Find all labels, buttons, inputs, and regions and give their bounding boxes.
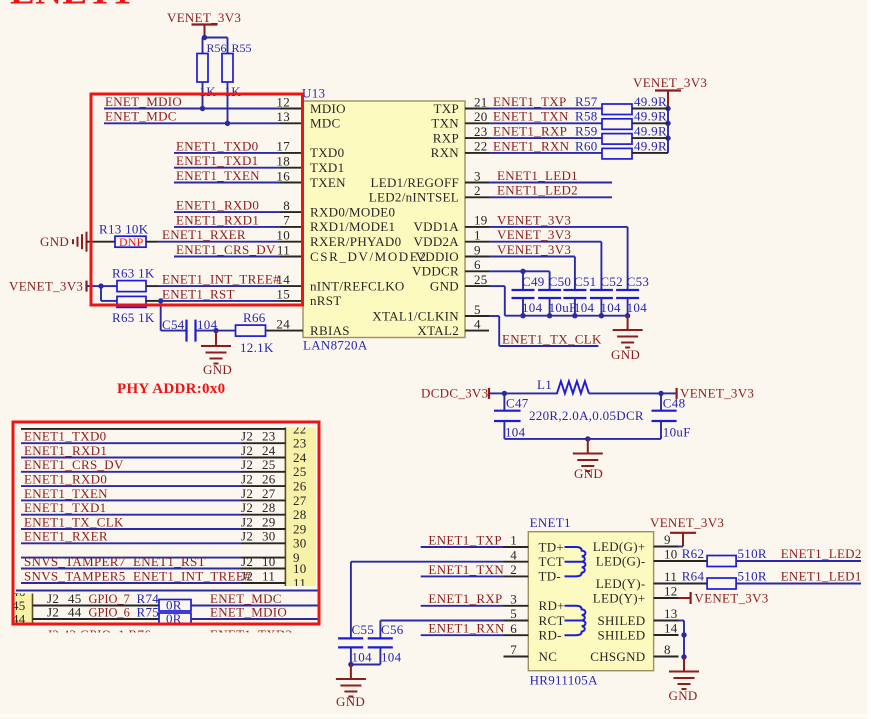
svg-text:C54: C54 xyxy=(162,317,185,332)
svg-text:20: 20 xyxy=(474,109,488,124)
svg-text:VENET_3V3: VENET_3V3 xyxy=(497,227,571,242)
svg-text:R64: R64 xyxy=(682,569,705,584)
svg-text:J2: J2 xyxy=(241,554,253,569)
wire J2 row 46 (cropped) xyxy=(16,590,318,592)
svg-text:12.1K: 12.1K xyxy=(240,340,274,355)
svg-text:LED(G)-: LED(G)- xyxy=(596,553,646,568)
ground (left, rotated) xyxy=(40,232,87,252)
svg-text:49.9R: 49.9R xyxy=(634,109,667,124)
wire VDDCR pin6 to C49/C50 xyxy=(489,269,550,290)
svg-text:C47: C47 xyxy=(506,396,529,411)
wire+net ENET1_TXD0 xyxy=(174,138,280,153)
wire bottom rail of filter xyxy=(504,436,661,441)
rail for R57-R60 xyxy=(665,106,670,153)
svg-text:ENET1_TXP: ENET1_TXP xyxy=(493,94,566,109)
svg-text:28: 28 xyxy=(293,507,307,522)
svg-text:11: 11 xyxy=(664,569,677,584)
svg-text:17: 17 xyxy=(276,139,290,154)
svg-text:1: 1 xyxy=(510,533,517,548)
svg-text:25: 25 xyxy=(474,272,488,287)
svg-text:ENET1_TXD1: ENET1_TXD1 xyxy=(24,500,106,515)
wire+net ENET1_TXN (HR pin2) xyxy=(421,562,505,577)
wire nRST branch down to RBIAS row xyxy=(161,301,186,331)
svg-text:8: 8 xyxy=(664,642,671,657)
svg-text:VENET_3V3: VENET_3V3 xyxy=(497,242,571,257)
svg-text:15: 15 xyxy=(276,287,290,302)
svg-text:ENET1_TXN: ENET1_TXN xyxy=(428,562,504,577)
svg-text:ENET1_CRS_DV: ENET1_CRS_DV xyxy=(24,457,124,472)
svg-text:RD-: RD- xyxy=(539,628,562,643)
node: VENET to R56/R55 split xyxy=(202,35,228,54)
svg-text:1: 1 xyxy=(474,228,481,243)
svg-text:ENET1_LED2: ENET1_LED2 xyxy=(497,183,578,198)
svg-text:10: 10 xyxy=(664,547,678,562)
svg-text:3: 3 xyxy=(510,591,517,606)
power VENET_3V3 (top right) xyxy=(633,75,707,109)
svg-text:J2: J2 xyxy=(241,529,253,544)
svg-text:ENET1_TXD1: ENET1_TXD1 xyxy=(176,153,258,168)
wire GND pin25 to cap rail xyxy=(489,286,628,316)
svg-text:2: 2 xyxy=(474,183,481,198)
svg-text:LED(Y)-: LED(Y)- xyxy=(596,576,646,591)
wire+net ENET1_TX_CLK to J2 29 xyxy=(21,514,285,529)
wire+net ENET1_TXN / resistor R58 49.9R xyxy=(489,109,668,130)
svg-text:19: 19 xyxy=(474,213,488,228)
wire+net ENET1_RXD1 to J2 24 xyxy=(21,443,285,458)
svg-text:ENET1_INT_TREE#: ENET1_INT_TREE# xyxy=(133,568,251,583)
wire+net ENET1_RXER xyxy=(158,227,280,242)
svg-text:RXP: RXP xyxy=(433,130,459,145)
svg-text:ENET1_LED2: ENET1_LED2 xyxy=(781,546,862,561)
svg-text:49.9R: 49.9R xyxy=(634,124,667,139)
svg-text:ENET1: ENET1 xyxy=(530,515,571,530)
ground (filter) xyxy=(573,439,603,481)
svg-text:GND: GND xyxy=(574,466,603,481)
svg-text:GND: GND xyxy=(203,362,232,377)
svg-text:12: 12 xyxy=(276,94,290,109)
svg-text:24: 24 xyxy=(262,443,276,458)
wire+net VENET_3V3 pin9 to C51 xyxy=(489,242,575,290)
svg-text:ENET1_RXP: ENET1_RXP xyxy=(493,124,567,139)
connector J2 body strip (right) xyxy=(285,428,316,587)
svg-text:RXD0/MODE0: RXD0/MODE0 xyxy=(310,204,395,219)
svg-text:10uF: 10uF xyxy=(663,425,691,440)
svg-text:R63 1K: R63 1K xyxy=(112,266,155,281)
svg-text:MDIO: MDIO xyxy=(310,101,346,116)
svg-text:ENET_MDC: ENET_MDC xyxy=(105,109,177,124)
svg-text:RXER/PHYAD0: RXER/PHYAD0 xyxy=(310,234,401,249)
power VENET_3V3 (top) xyxy=(167,10,241,38)
svg-text:VENET_3V3: VENET_3V3 xyxy=(680,385,754,400)
svg-text:VENET_3V3: VENET_3V3 xyxy=(694,590,768,605)
svg-text:PHY ADDR:0x0: PHY ADDR:0x0 xyxy=(117,381,225,397)
HR911105A internal names left xyxy=(539,539,565,664)
svg-text:12: 12 xyxy=(664,584,678,599)
svg-text:C56: C56 xyxy=(381,622,404,637)
capacitor C52 104 xyxy=(590,274,623,318)
svg-text:7: 7 xyxy=(510,642,517,657)
svg-text:ENET1_RXD0: ENET1_RXD0 xyxy=(176,198,259,213)
svg-text:ENET1_TXN: ENET1_TXN xyxy=(493,109,569,124)
svg-text:ENET1_RST: ENET1_RST xyxy=(162,286,235,301)
svg-text:RBIAS: RBIAS xyxy=(310,323,350,338)
wire+net ENET1_RXD1 xyxy=(174,212,280,227)
U13 pin names (left column) xyxy=(310,101,405,338)
svg-text:TXN: TXN xyxy=(431,116,459,131)
svg-text:16: 16 xyxy=(276,168,290,183)
svg-text:J2: J2 xyxy=(241,472,253,487)
svg-text:DNP: DNP xyxy=(119,235,144,249)
capacitor C55 104 xyxy=(338,622,374,665)
svg-text:44: 44 xyxy=(68,604,82,619)
resistor R56 xyxy=(197,41,227,109)
svg-text:J2: J2 xyxy=(241,514,253,529)
wire+net ENET1_TX_CLK xyxy=(489,316,602,346)
svg-text:ENET1_TXEN: ENET1_TXEN xyxy=(176,168,260,183)
svg-text:ENET1_TXP: ENET1_TXP xyxy=(428,532,501,547)
svg-text:30: 30 xyxy=(293,536,307,551)
svg-text:RD+: RD+ xyxy=(539,598,565,613)
svg-text:ENET_MDIO: ENET_MDIO xyxy=(105,94,182,109)
svg-text:LED(G)+: LED(G)+ xyxy=(593,539,646,554)
ground (HR chassis) xyxy=(669,657,700,703)
svg-text:nRST: nRST xyxy=(310,293,342,308)
svg-text:GND: GND xyxy=(611,347,640,362)
svg-text:J2: J2 xyxy=(241,500,253,515)
svg-text:ENET1_TXD0: ENET1_TXD0 xyxy=(24,429,106,444)
resistor R65 xyxy=(112,296,158,325)
svg-text:104: 104 xyxy=(600,300,621,315)
power VENET_3V3 (HR pin9) xyxy=(650,515,724,547)
svg-text:26: 26 xyxy=(262,472,276,487)
capacitor C48 10uF xyxy=(652,393,691,439)
node VENET split to R63/R65 xyxy=(98,283,117,301)
wire+net SNVS_TAMPER5 ENET1_INT_TREE# to J2 11 xyxy=(21,568,285,583)
capacitor C51 104 xyxy=(563,274,596,318)
svg-text:10: 10 xyxy=(293,561,307,576)
svg-text:13: 13 xyxy=(276,109,290,124)
U13 right pin stubs with numbers xyxy=(465,94,489,331)
power VENET_3V3 (right port) xyxy=(677,385,755,400)
wire TCT to C55 xyxy=(351,562,504,639)
capacitor C54 xyxy=(162,317,218,342)
svg-text:LED2/nINTSEL: LED2/nINTSEL xyxy=(369,190,459,205)
svg-text:TXP: TXP xyxy=(434,101,459,116)
wire+net VENET_3V3 pin1 to C52 xyxy=(489,227,601,290)
resistor R66 xyxy=(236,310,274,355)
svg-text:18: 18 xyxy=(276,154,290,169)
svg-text:5: 5 xyxy=(474,302,481,317)
svg-text:TXD0: TXD0 xyxy=(310,145,344,160)
svg-text:ENET1_TX_CLK: ENET1_TX_CLK xyxy=(24,514,124,529)
svg-text:25: 25 xyxy=(262,457,276,472)
op-amp U13 chip body LAN8720A xyxy=(302,86,465,353)
svg-text:U13: U13 xyxy=(302,86,325,101)
power VENET_3V3 (left port) xyxy=(9,279,101,294)
svg-text:VDD2A: VDD2A xyxy=(413,234,459,249)
capacitor C50 10uF xyxy=(538,274,576,318)
HR911105A right pin stubs + numbers xyxy=(654,532,679,657)
svg-text:TD+: TD+ xyxy=(539,539,565,554)
wire+net ENET1_RXN (HR pin6) xyxy=(421,621,505,636)
svg-text:VENET_3V3: VENET_3V3 xyxy=(650,515,724,530)
resistor R75 0R / wire+net ENET_MDIO row J2 44 GPIO_6 xyxy=(33,604,319,625)
svg-text:R75: R75 xyxy=(137,604,160,619)
connector strip pin numbers xyxy=(293,421,307,590)
svg-text:nINT/REFCLKO: nINT/REFCLKO xyxy=(310,278,405,293)
svg-text:C53: C53 xyxy=(627,274,650,289)
node C54/R66/GND junction xyxy=(196,328,236,333)
capacitor C47 104 xyxy=(494,393,529,439)
svg-text:GPIO_7: GPIO_7 xyxy=(89,592,130,606)
svg-text:220R,2.0A,0.05DCR: 220R,2.0A,0.05DCR xyxy=(529,408,644,423)
wire+net ENET1_TXD1 to J2 28 xyxy=(21,500,285,515)
svg-text:4: 4 xyxy=(510,547,517,562)
svg-text:SNVS_TAMPER7: SNVS_TAMPER7 xyxy=(24,554,126,569)
wire shield pins 13/14/8 to ground xyxy=(679,621,687,660)
svg-text:GND: GND xyxy=(430,278,459,293)
wire+net ENET1_TXEN to J2 27 xyxy=(21,486,285,501)
svg-text:9: 9 xyxy=(664,532,671,547)
svg-text:RXN: RXN xyxy=(431,145,460,160)
svg-text:ENET1_LED1: ENET1_LED1 xyxy=(497,168,578,183)
svg-text:MDC: MDC xyxy=(310,116,341,131)
svg-text:24: 24 xyxy=(276,316,290,331)
svg-text:VENET_3V3: VENET_3V3 xyxy=(633,75,707,90)
svg-text:ENET_MDIO: ENET_MDIO xyxy=(210,604,287,619)
svg-text:11: 11 xyxy=(293,575,306,590)
svg-text:J2: J2 xyxy=(241,457,253,472)
svg-text:J2: J2 xyxy=(47,604,59,619)
svg-text:SHILED: SHILED xyxy=(597,627,645,642)
svg-text:ENET1_RXP: ENET1_RXP xyxy=(428,591,502,606)
svg-text:TXD1: TXD1 xyxy=(310,160,344,175)
svg-text:C51: C51 xyxy=(574,274,597,289)
svg-text:XTAL2: XTAL2 xyxy=(417,323,459,338)
capacitor C53 104 xyxy=(616,274,649,318)
svg-text:104: 104 xyxy=(627,300,648,315)
svg-text:LED1/REGOFF: LED1/REGOFF xyxy=(370,175,459,190)
wire J2 row 22 (cropped) xyxy=(21,428,285,430)
svg-text:ENET1_TXD0: ENET1_TXD0 xyxy=(176,138,258,153)
wire+net ENET_MDC xyxy=(104,109,280,126)
wire+net ENET1_CRS_DV to J2 25 xyxy=(21,457,285,472)
svg-text:ENET1_INT_TREE#: ENET1_INT_TREE# xyxy=(162,272,280,287)
wire+net ENET1_RXER to J2 30 xyxy=(21,529,285,544)
title ENET (cropped at top) xyxy=(10,0,132,13)
svg-text:23: 23 xyxy=(262,429,276,444)
wire+net ENET1_RXD0 to J2 26 xyxy=(21,472,285,487)
svg-text:R62: R62 xyxy=(682,546,705,561)
svg-text:VENET_3V3: VENET_3V3 xyxy=(497,212,571,227)
resistor R74 0R / wire+net ENET_MDC row J2 45 GPIO_7 xyxy=(33,591,319,612)
cropped text row below box xyxy=(47,627,292,642)
svg-text:SNVS_TAMPER5: SNVS_TAMPER5 xyxy=(24,568,126,583)
svg-text:30: 30 xyxy=(262,529,276,544)
wire+net ENET1_INT_TREE# xyxy=(158,272,280,287)
capacitor C56 104 xyxy=(351,622,404,665)
resistor R13 (DNP) xyxy=(87,222,159,249)
svg-text:ENET1_RXD0: ENET1_RXD0 xyxy=(24,472,107,487)
svg-text:RCT: RCT xyxy=(539,613,565,628)
svg-text:J2 43 GPIO_1 R76: J2 43 GPIO_1 R76 xyxy=(47,627,151,642)
svg-text:CHSGND: CHSGND xyxy=(590,649,645,664)
svg-text:49.9R: 49.9R xyxy=(634,94,667,109)
svg-text:R58: R58 xyxy=(575,109,598,124)
wire+net ENET1_RXD0 xyxy=(174,198,280,213)
svg-text:29: 29 xyxy=(293,521,307,536)
wire+net ENET1_RXP / resistor R59 49.9R xyxy=(489,124,668,145)
svg-text:14: 14 xyxy=(664,621,678,636)
svg-text:HR911105A: HR911105A xyxy=(530,673,598,688)
svg-text:VDDCR: VDDCR xyxy=(412,264,459,279)
red highlight box (lower) xyxy=(13,422,319,624)
svg-text:VENET_3V3: VENET_3V3 xyxy=(9,279,83,294)
svg-text:ENET1_RST: ENET1_RST xyxy=(133,554,206,569)
svg-text:26: 26 xyxy=(293,479,307,494)
svg-text:VENET_3V3: VENET_3V3 xyxy=(167,10,241,25)
wire L1 to VENET_3V3 xyxy=(589,391,677,396)
svg-text:7: 7 xyxy=(283,213,290,228)
U13 pin names (right column) xyxy=(369,101,460,338)
svg-text:ENET1_TXD2: ENET1_TXD2 xyxy=(210,627,292,642)
svg-text:ENET1_RXN: ENET1_RXN xyxy=(493,138,570,153)
svg-text:RXD1/MODE1: RXD1/MODE1 xyxy=(310,219,395,234)
ground (below C54) xyxy=(201,331,232,377)
wire+net ENET1_CRS_DV xyxy=(174,242,280,257)
svg-text:6: 6 xyxy=(474,257,481,272)
svg-text:C49: C49 xyxy=(522,274,545,289)
svg-text:21: 21 xyxy=(474,94,488,109)
wire+net ENET1_TXP / resistor R57 49.9R xyxy=(489,94,668,115)
HR911105A left pin stubs + numbers xyxy=(504,533,529,658)
node DCDC/C47 junction xyxy=(502,391,507,396)
svg-text:ENET1_RXER: ENET1_RXER xyxy=(24,529,108,544)
U13 left pin stubs with numbers xyxy=(266,94,304,331)
svg-text:28: 28 xyxy=(262,500,276,515)
svg-text:6: 6 xyxy=(510,621,517,636)
svg-text:C48: C48 xyxy=(663,396,686,411)
svg-text:11: 11 xyxy=(262,568,275,583)
svg-text:C52: C52 xyxy=(600,274,623,289)
svg-text:J2: J2 xyxy=(241,568,253,583)
HR911105A internal names right xyxy=(590,539,645,664)
ground (below cap bank) xyxy=(611,316,643,362)
wire+net ENET1_LED2 xyxy=(489,183,612,198)
power VENET_3V3 (HR pin12 port) xyxy=(679,590,769,605)
power DCDC_3V3 (port) xyxy=(421,385,504,400)
svg-text:J2: J2 xyxy=(241,443,253,458)
svg-text:24: 24 xyxy=(293,450,307,465)
svg-text:DCDC_3V3: DCDC_3V3 xyxy=(421,385,488,400)
svg-text:R55: R55 xyxy=(232,41,252,55)
svg-text:ENET1_RXER: ENET1_RXER xyxy=(162,227,246,242)
svg-text:GND: GND xyxy=(669,688,698,703)
svg-text:23: 23 xyxy=(293,436,307,451)
svg-text:3: 3 xyxy=(474,168,481,183)
svg-text:11: 11 xyxy=(277,242,290,257)
svg-text:49.9R: 49.9R xyxy=(634,138,667,153)
TD transformer coil xyxy=(565,547,586,576)
svg-text:10: 10 xyxy=(276,228,290,243)
svg-text:22: 22 xyxy=(293,421,307,436)
wire+net SNVS_TAMPER7 ENET1_RST to J2 10 xyxy=(21,554,285,569)
resistor R63 xyxy=(112,266,158,292)
svg-text:NC: NC xyxy=(539,649,558,664)
svg-text:ENET1_TX_CLK: ENET1_TX_CLK xyxy=(502,331,602,346)
svg-text:104: 104 xyxy=(381,650,402,665)
svg-text:SHILED: SHILED xyxy=(597,613,645,628)
wire+net ENET1_RXN / resistor R60 49.9R xyxy=(489,138,668,159)
svg-text:R60: R60 xyxy=(575,138,598,153)
wire+net ENET1_RST xyxy=(158,286,280,303)
svg-text:LED(Y)+: LED(Y)+ xyxy=(593,590,646,605)
svg-text:27: 27 xyxy=(293,493,307,508)
svg-text:L1: L1 xyxy=(537,377,552,392)
svg-text:510R: 510R xyxy=(738,569,767,584)
svg-text:5: 5 xyxy=(510,606,517,621)
svg-text:R57: R57 xyxy=(575,94,598,109)
svg-text:GND: GND xyxy=(40,234,69,249)
resistor R55 xyxy=(222,41,252,123)
wire+net VENET_3V3 pin19 to C53 xyxy=(489,212,628,290)
resistor R64 510R / wire+net ENET1_LED1 xyxy=(679,569,862,589)
svg-text:23: 23 xyxy=(474,124,488,139)
wire+net ENET1_TXD1 xyxy=(174,153,280,168)
svg-text:10uF: 10uF xyxy=(549,300,577,315)
svg-text:2: 2 xyxy=(510,562,517,577)
svg-text:ENET1_RXD1: ENET1_RXD1 xyxy=(24,443,107,458)
wire RCT to C56 xyxy=(380,621,503,639)
svg-text:104: 104 xyxy=(352,650,373,665)
svg-text:25: 25 xyxy=(293,464,307,479)
svg-text:XTAL1/CLKIN: XTAL1/CLKIN xyxy=(372,308,459,323)
svg-text:104: 104 xyxy=(505,425,526,440)
svg-text:TD-: TD- xyxy=(539,569,562,584)
wire+net ENET_MDIO xyxy=(104,94,280,111)
ground (below C55/C56) xyxy=(336,662,366,709)
svg-text:J2: J2 xyxy=(241,429,253,444)
svg-text:CSR_DV/MODE2: CSR_DV/MODE2 xyxy=(310,249,427,264)
svg-text:ENET1_LED1: ENET1_LED1 xyxy=(781,569,862,584)
svg-text:C50: C50 xyxy=(549,274,572,289)
resistor R62 510R / wire+net ENET1_LED2 xyxy=(679,546,862,566)
wire J2 row 9 (no label) xyxy=(21,557,285,559)
svg-text:13: 13 xyxy=(664,606,678,621)
capacitor C49 104 xyxy=(512,274,545,318)
wire+net ENET1_TXD0 to J2 23 xyxy=(21,429,285,444)
svg-text:510R: 510R xyxy=(738,546,767,561)
wire+net ENET1_TXP (HR pin1) xyxy=(421,532,504,547)
svg-text:27: 27 xyxy=(262,486,276,501)
svg-text:10: 10 xyxy=(262,554,276,569)
svg-text:ENET1_CRS_DV: ENET1_CRS_DV xyxy=(176,242,276,257)
connector ENET1 HR911105A body xyxy=(528,515,653,688)
svg-text:R66: R66 xyxy=(243,310,266,325)
svg-text:TXEN: TXEN xyxy=(310,175,346,190)
svg-text:GPIO_6: GPIO_6 xyxy=(89,605,130,619)
svg-text:LAN8720A: LAN8720A xyxy=(303,338,368,353)
svg-text:ENET1_TXEN: ENET1_TXEN xyxy=(24,486,108,501)
svg-text:29: 29 xyxy=(262,514,276,529)
svg-text:22: 22 xyxy=(474,139,488,154)
label PHY ADDR xyxy=(117,381,225,397)
svg-text:R65 1K: R65 1K xyxy=(112,310,155,325)
svg-text:C55: C55 xyxy=(352,622,375,637)
inductor L1 220R,2.0A,0.05DCR xyxy=(504,377,644,423)
svg-text:ENET1_RXN: ENET1_RXN xyxy=(428,621,505,636)
svg-text:4: 4 xyxy=(474,316,481,331)
